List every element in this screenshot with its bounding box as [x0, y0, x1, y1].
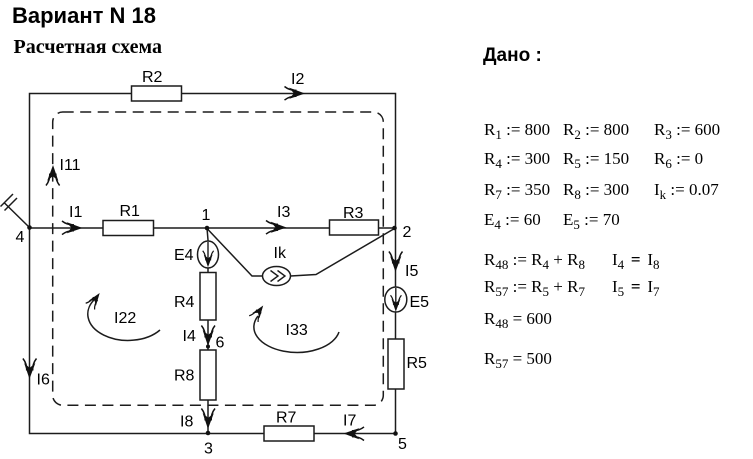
current arrow I8 — [201, 409, 215, 428]
node 2 junction dot — [392, 226, 397, 231]
svg-text:I4: I4 — [183, 328, 196, 345]
svg-text:5: 5 — [398, 436, 407, 453]
resistor R8 — [200, 350, 216, 400]
current arrow I11 — [46, 167, 60, 186]
wire node1 to Ik source — [207, 229, 263, 277]
equation I4=I8 — [612, 250, 660, 270]
svg-text:4: 4 — [16, 229, 25, 246]
equation R57 — [484, 277, 585, 297]
current arrow I5 — [389, 252, 403, 271]
svg-text:E4: E4 — [174, 247, 194, 264]
EMF source E4 — [198, 241, 219, 268]
EMF source E5 — [385, 287, 407, 312]
heading Dano — [483, 45, 542, 67]
loop arrow I33 — [254, 316, 339, 352]
resistor R7 — [264, 426, 314, 441]
svg-text:I5: I5 — [405, 263, 418, 280]
svg-text:6: 6 — [216, 335, 225, 352]
svg-text:R7: R7 — [276, 410, 297, 427]
svg-text:I3: I3 — [277, 204, 290, 221]
equation R48 — [484, 250, 585, 270]
current arrow I3 — [266, 221, 285, 235]
E4 internal arrow line — [207, 242, 209, 263]
wire stub at node4 with break slashes — [1, 194, 30, 228]
arrowhead of E5 — [391, 295, 402, 310]
current source Ik — [263, 267, 291, 286]
node 4 junction dot — [27, 225, 32, 230]
svg-text:3: 3 — [204, 441, 213, 458]
svg-text:I33: I33 — [286, 322, 308, 339]
svg-text:1: 1 — [202, 207, 211, 224]
svg-text:R4: R4 — [174, 294, 195, 311]
current arrow I7 — [345, 427, 364, 441]
svg-text:Ik: Ik — [274, 245, 287, 262]
result R57 — [484, 349, 552, 369]
svg-text:R2: R2 — [142, 69, 163, 86]
wire middle vertical node1 to node3 — [207, 228, 208, 433]
svg-text:E5: E5 — [410, 294, 430, 311]
given values row 3 — [484, 180, 550, 200]
arrowhead of E4 — [203, 251, 214, 266]
resistor R4 — [200, 273, 216, 321]
given values row 4 — [484, 210, 541, 230]
wire Ik source to node2 — [291, 229, 395, 277]
resistor R2 — [132, 86, 182, 101]
given values row 1 — [484, 120, 550, 140]
svg-text:I1: I1 — [69, 204, 82, 221]
node 6 junction dot — [206, 345, 210, 349]
arrowhead of loop I22 — [86, 291, 104, 310]
given values row 2 — [484, 149, 550, 169]
svg-text:I6: I6 — [37, 372, 50, 389]
current arrow I4 — [201, 326, 215, 345]
svg-text:I2: I2 — [291, 71, 304, 88]
resistor R1 — [103, 221, 154, 236]
svg-text:I8: I8 — [180, 414, 193, 431]
svg-text:I11: I11 — [60, 157, 81, 174]
svg-text:R1: R1 — [120, 203, 141, 220]
subtitle — [14, 36, 163, 59]
equation I5=I7 — [612, 277, 660, 297]
svg-text:R5: R5 — [407, 355, 428, 372]
svg-text:R8: R8 — [174, 368, 195, 385]
wire middle horizontal node4 to node2 — [30, 227, 395, 229]
resistor R5 — [388, 339, 404, 389]
current arrow I6 — [23, 359, 37, 378]
svg-text:R3: R3 — [343, 205, 364, 222]
dashed supermesh contour — [53, 112, 384, 405]
svg-text:2: 2 — [403, 224, 412, 241]
result R48 — [484, 309, 552, 329]
svg-text:I22: I22 — [114, 310, 136, 327]
E5 internal arrow line — [395, 288, 397, 308]
chevrons inside Ik — [271, 271, 286, 282]
current arrow I1 — [62, 221, 81, 235]
node 1 junction dot — [205, 226, 210, 231]
outer loop wire — [30, 94, 396, 434]
node 3 junction dot — [206, 431, 211, 436]
arrowhead of loop I33 — [249, 303, 267, 322]
loop arrow I22 — [88, 298, 160, 340]
svg-text:I7: I7 — [343, 413, 356, 430]
resistor R3 — [330, 220, 379, 235]
title — [12, 3, 156, 29]
current arrow I2 — [285, 87, 304, 101]
node 5 junction dot — [393, 431, 398, 436]
